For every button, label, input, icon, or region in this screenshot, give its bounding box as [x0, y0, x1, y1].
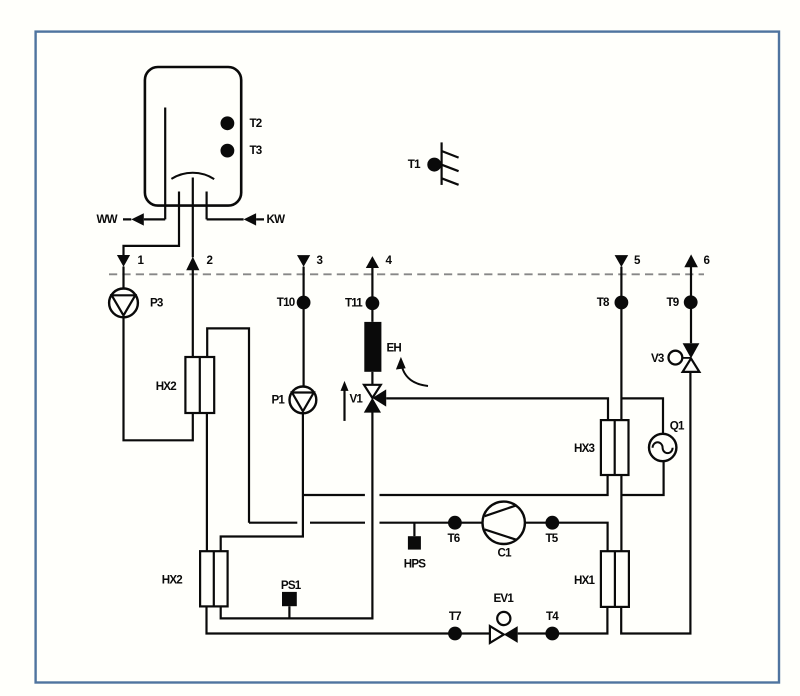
- wire HX2 lower left column to EV1 line: [207, 606, 608, 633]
- svg-text:T5: T5: [546, 532, 559, 545]
- port 1 arrow: [117, 255, 130, 267]
- tank dip tube wire: [164, 108, 166, 220]
- wire tank to port 1: [124, 192, 180, 289]
- wire Q1 bottom branch: [621, 461, 663, 495]
- svg-text:HX1: HX1: [574, 574, 596, 587]
- port 2 arrow: [186, 257, 199, 271]
- sensor T11: [366, 296, 380, 310]
- svg-text:C1: C1: [498, 546, 513, 559]
- heat exchanger HX1: [574, 551, 629, 607]
- svg-text:3: 3: [317, 254, 324, 267]
- wire V1 bottom to HX2 lower right column: [221, 412, 373, 618]
- KW arrow: [244, 213, 257, 225]
- svg-text:PS1: PS1: [281, 579, 302, 592]
- wire compressor line y522.7: [249, 523, 608, 552]
- sensor T1 ambient: [408, 142, 459, 185]
- svg-text:T4: T4: [546, 610, 559, 623]
- tank diffuser arc: [171, 173, 214, 179]
- svg-text:T1: T1: [408, 158, 421, 171]
- sensor T3: [221, 144, 235, 158]
- svg-text:4: 4: [386, 254, 393, 267]
- heat exchanger HX2 upper: [156, 357, 215, 413]
- KW inlet wire: [207, 192, 264, 220]
- svg-text:P1: P1: [272, 393, 286, 406]
- svg-text:T10: T10: [277, 296, 295, 309]
- sensor T2: [221, 116, 235, 130]
- svg-text:HPS: HPS: [404, 558, 427, 571]
- tank: [145, 67, 241, 206]
- heat exchanger HX3: [574, 420, 629, 475]
- svg-text:T9: T9: [667, 296, 680, 309]
- sensor T8: [615, 296, 629, 310]
- svg-text:Q1: Q1: [670, 419, 685, 432]
- port 6 arrow: [684, 254, 698, 267]
- wire port3 leg: [303, 267, 305, 387]
- valve V3: [651, 343, 699, 372]
- wire HX3 right column to HX1 right column: [620, 475, 622, 551]
- sensor T10: [297, 296, 311, 310]
- svg-text:5: 5: [634, 254, 641, 267]
- wire port4 leg upper: [371, 268, 373, 385]
- source Q1: [649, 419, 685, 461]
- wire HX2 upper right column down to HX2 lower: [206, 413, 208, 551]
- svg-text:HX3: HX3: [574, 442, 596, 455]
- wire tank center to port 2: [192, 178, 194, 358]
- svg-text:EH: EH: [387, 342, 402, 355]
- svg-text:T11: T11: [345, 297, 363, 310]
- svg-text:P3: P3: [150, 296, 164, 309]
- valve V1 three-way: [350, 385, 387, 413]
- pump P3: [109, 289, 164, 318]
- port 4 arrow: [366, 256, 379, 268]
- wire evaporator suction header y495: [303, 475, 608, 495]
- pressure switch PS1: [281, 579, 302, 618]
- port 3 arrow: [297, 255, 310, 267]
- svg-text:KW: KW: [267, 213, 286, 226]
- WW arrow: [131, 213, 144, 225]
- svg-text:V3: V3: [651, 352, 665, 365]
- svg-text:T2: T2: [250, 117, 262, 130]
- sensor T6: [448, 516, 462, 530]
- expansion valve EV1: [490, 592, 518, 643]
- sensor T5: [545, 516, 559, 530]
- pressure switch HPS: [404, 523, 427, 571]
- wire port5 leg: [620, 267, 622, 421]
- svg-text:T6: T6: [448, 532, 461, 545]
- wire P1 down to HX2 lower right column: [221, 413, 303, 551]
- wire P3 to HX2 upper return: [124, 317, 193, 440]
- wire Q1 top branch: [621, 398, 663, 434]
- svg-text:EV1: EV1: [494, 592, 515, 605]
- svg-text:HX2: HX2: [162, 574, 183, 587]
- wire HX1 right column to V3 riser: [621, 372, 690, 634]
- curved arrow near EH: [401, 364, 428, 386]
- WW outlet wire: [123, 218, 165, 220]
- svg-text:V1: V1: [350, 393, 364, 406]
- svg-text:T8: T8: [597, 296, 610, 309]
- heat exchanger HX2 lower: [162, 551, 228, 606]
- svg-text:HX2: HX2: [156, 380, 177, 393]
- wire HX2 upper right column to compressor suction: [207, 328, 249, 522]
- electric heater EH: [364, 322, 381, 372]
- port 5 arrow: [615, 255, 629, 267]
- wire V3 to port 6: [690, 267, 692, 343]
- wire V1 right port to HX3 left column: [386, 398, 608, 420]
- sensor T4: [545, 627, 559, 641]
- compressor C1: [483, 502, 525, 560]
- svg-text:WW: WW: [97, 213, 118, 226]
- pump P1: [272, 387, 317, 414]
- svg-text:T3: T3: [250, 144, 263, 157]
- svg-text:1: 1: [138, 254, 145, 267]
- svg-text:6: 6: [704, 254, 711, 267]
- svg-text:2: 2: [207, 254, 213, 267]
- svg-text:T7: T7: [449, 610, 461, 623]
- flow arrow at V1: [343, 389, 345, 421]
- dashed boundary line: [109, 273, 704, 275]
- sensor T9: [684, 295, 698, 309]
- sensor T7: [448, 627, 462, 641]
